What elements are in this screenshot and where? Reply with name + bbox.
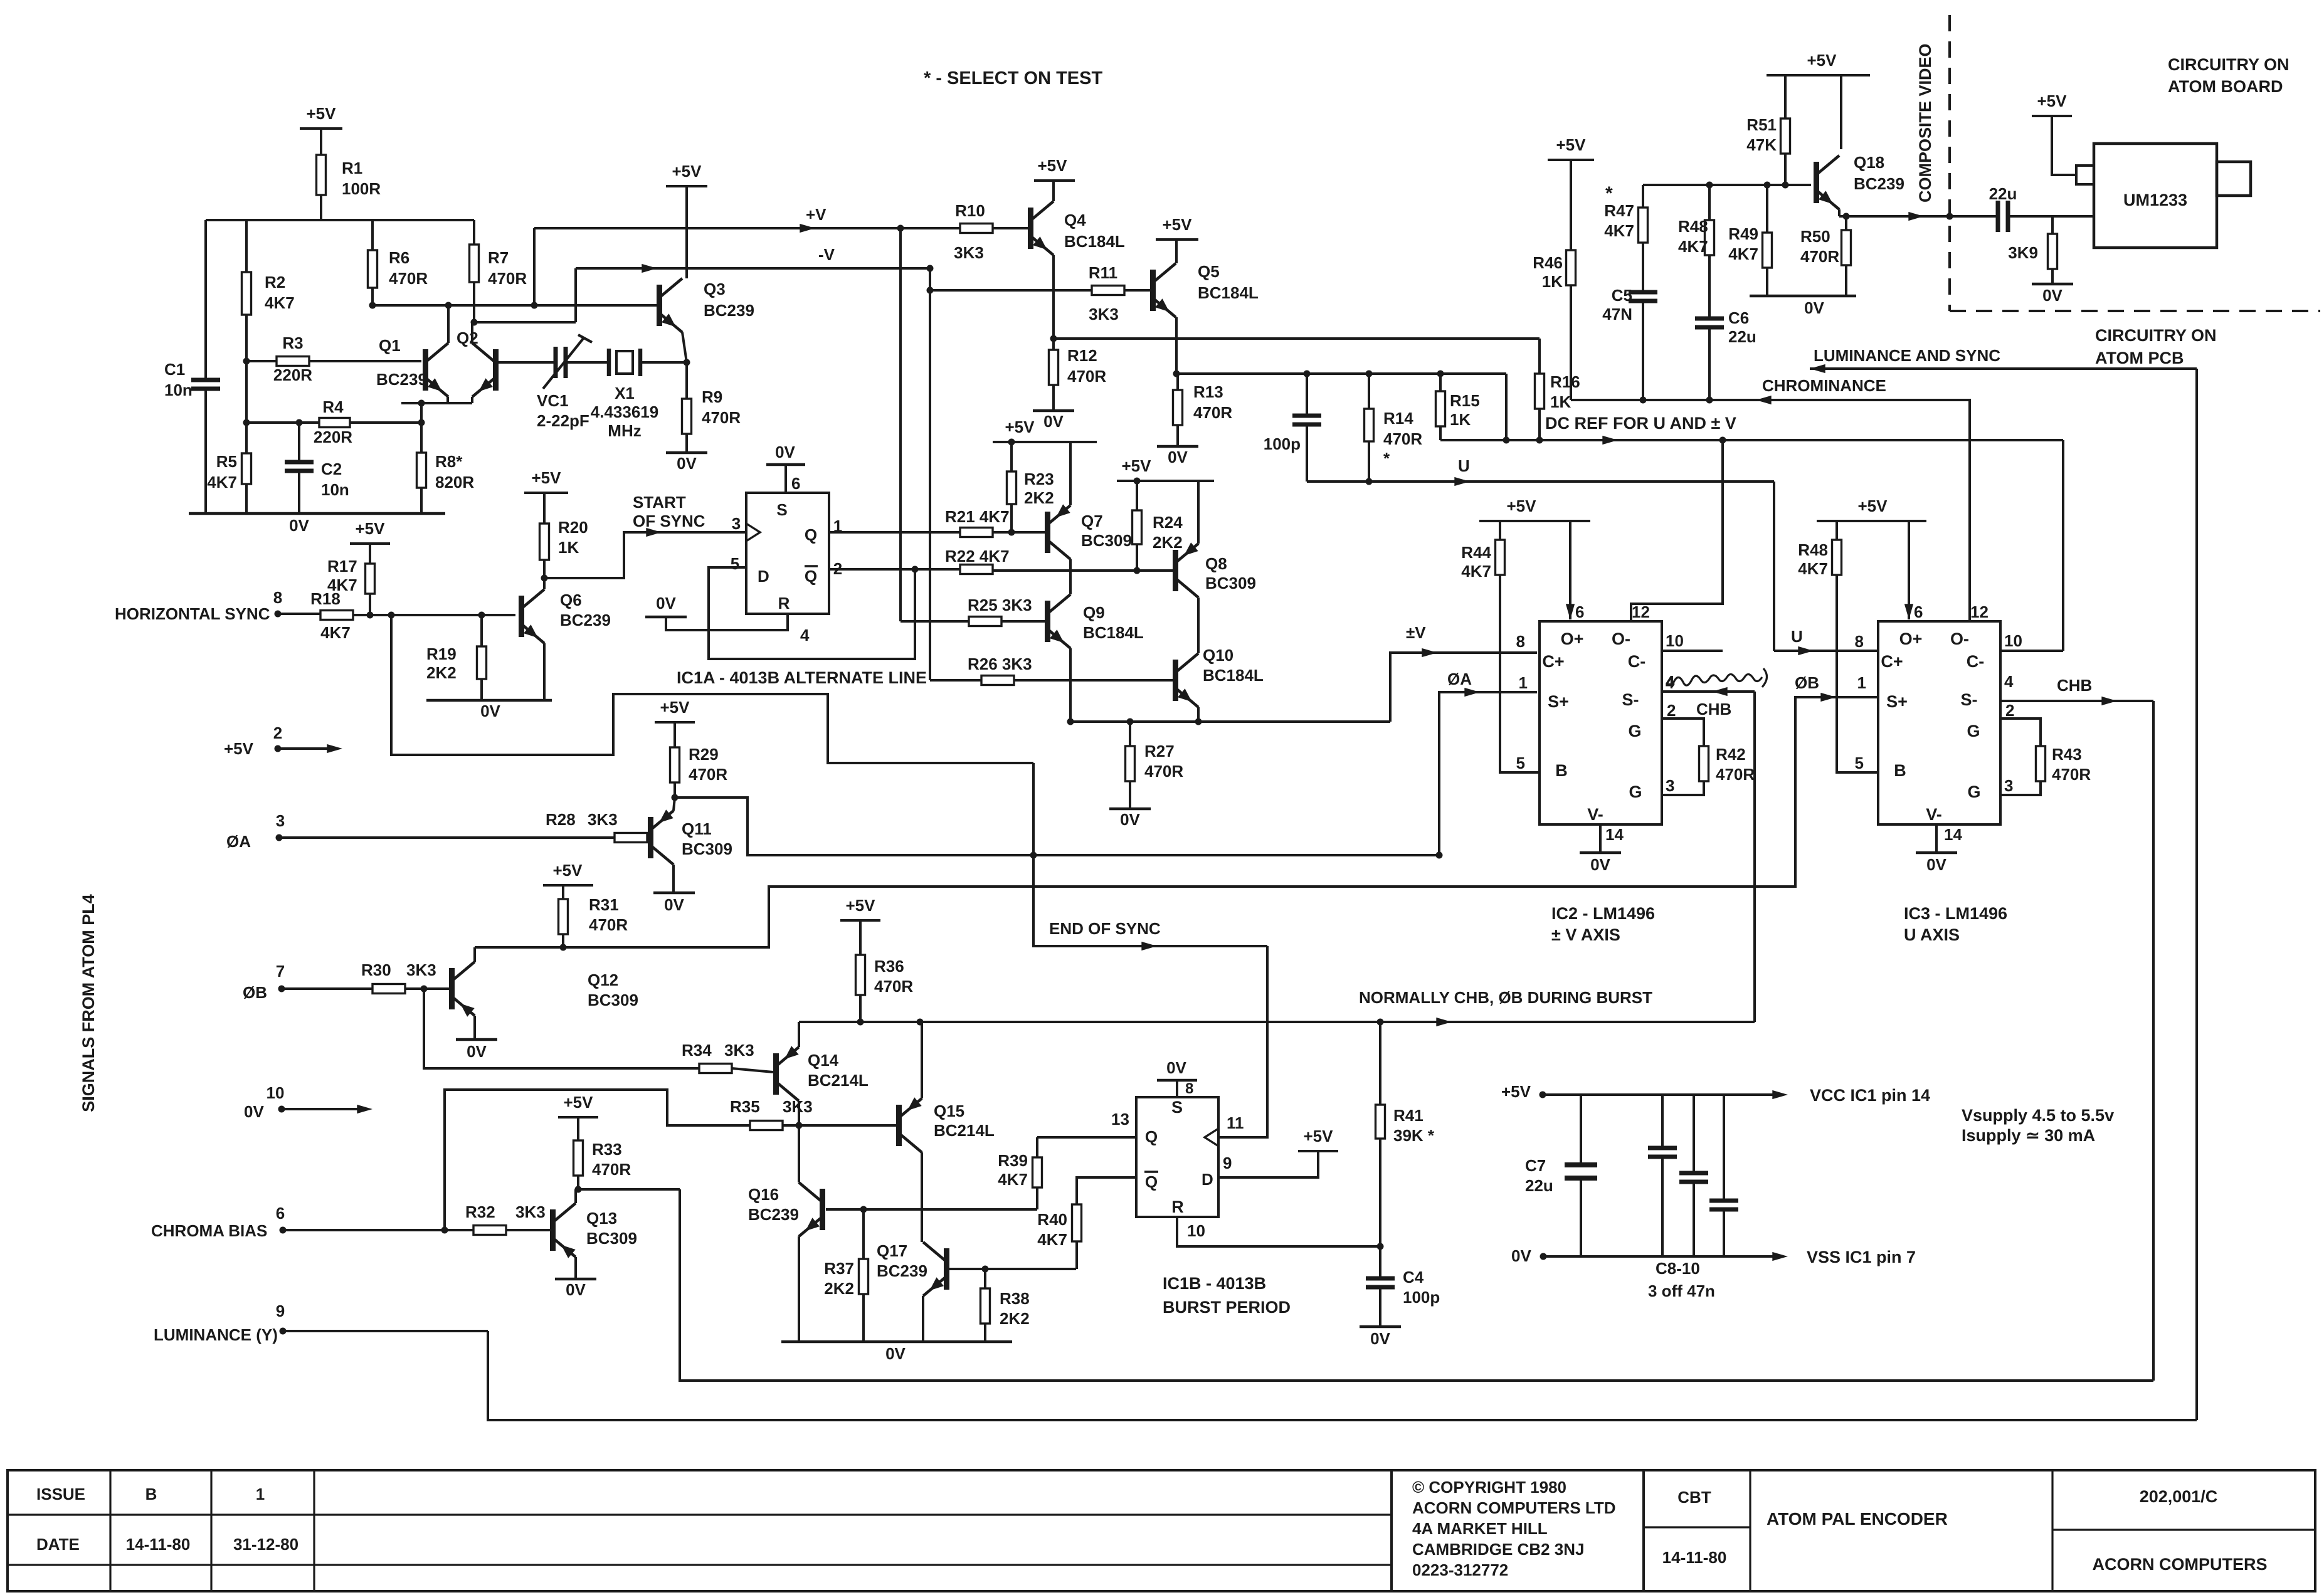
wire R25 to Q9 base [1001, 620, 1045, 623]
transistor Q8 [1173, 542, 1256, 597]
wire U line [1307, 456, 1774, 486]
titleblock copyright text [1412, 1478, 1616, 1579]
svg-text:0223-312772: 0223-312772 [1412, 1561, 1508, 1579]
resistor R2 [242, 272, 295, 315]
svg-text:470R: 470R [702, 408, 741, 427]
svg-text:R24: R24 [1153, 513, 1183, 532]
resistor R29 [670, 745, 728, 796]
wire L2 line [1176, 371, 1506, 377]
svg-text:R48: R48 [1798, 540, 1828, 559]
svg-text:0V: 0V [289, 516, 309, 535]
svg-text:4K7: 4K7 [1037, 1230, 1067, 1249]
svg-text:10n: 10n [164, 381, 193, 399]
svg-text:* - SELECT ON TEST: * - SELECT ON TEST [924, 68, 1102, 88]
wire Q10 emitter [1197, 707, 1200, 722]
wire Q17 base line [949, 1266, 1076, 1273]
svg-text:BC214L: BC214L [934, 1121, 995, 1140]
svg-text:R26 3K3: R26 3K3 [968, 655, 1032, 673]
wire R7 branch [473, 220, 475, 245]
svg-text:C8-10: C8-10 [1656, 1259, 1700, 1278]
svg-text:R38: R38 [1000, 1289, 1030, 1308]
wire R10 to Q4 base [993, 227, 1028, 229]
svg-text:BC239: BC239 [748, 1205, 799, 1224]
wire Q14 emitter [798, 1022, 800, 1047]
svg-text:OF SYNC: OF SYNC [633, 512, 705, 530]
svg-text:100R: 100R [342, 179, 381, 198]
svg-text:6: 6 [791, 474, 800, 493]
svg-text:R31: R31 [589, 895, 619, 914]
ground 0V R27 [1109, 809, 1151, 829]
svg-text:+5V: +5V [553, 861, 583, 880]
resistor R25 [968, 596, 1032, 626]
svg-text:R7: R7 [488, 248, 509, 267]
wire -V drop x1483 [927, 265, 934, 681]
wire IC1B pin 12 line [1077, 1177, 1136, 1204]
svg-text:3 off 47n: 3 off 47n [1648, 1282, 1715, 1300]
flip-flop IC1B pin labels [1144, 1098, 1244, 1240]
svg-text:Isupply ≃ 30 mA: Isupply ≃ 30 mA [1962, 1126, 2095, 1145]
svg-text:R23: R23 [1024, 470, 1054, 488]
wire -V riser [574, 268, 577, 322]
wire Q9 emitter [1069, 648, 1072, 722]
IC IC2 LM1496 box [1540, 621, 1662, 824]
ground 0V IC2 [1580, 853, 1621, 874]
svg-text:ACORN COMPUTERS LTD: ACORN COMPUTERS LTD [1412, 1498, 1616, 1517]
svg-text:100p: 100p [1264, 434, 1301, 453]
svg-text:R30: R30 [361, 961, 391, 979]
capacitor C6 [1695, 255, 1756, 400]
resistor R5 [207, 452, 251, 513]
svg-text:BC239: BC239 [560, 611, 611, 629]
power +5V R20 [524, 468, 568, 524]
svg-text:470R: 470R [1716, 765, 1755, 784]
transistor Q10 [1173, 646, 1264, 707]
resistor R18 [310, 589, 353, 642]
node Q1 collector line (+V feed) [369, 302, 657, 309]
ground 0V burst gate [781, 1342, 1012, 1363]
resistor R19 [426, 615, 487, 700]
wire Q13 collector line [575, 1186, 680, 1204]
svg-text:ATOM PCB: ATOM PCB [2095, 349, 2184, 367]
svg-text:COMPOSITE VIDEO: COMPOSITE VIDEO [1916, 43, 1935, 203]
wire chrominance to IC3 pin 12 [1968, 399, 1971, 621]
svg-text:+5V: +5V [1163, 215, 1193, 234]
svg-text:22u: 22u [1525, 1176, 1553, 1195]
svg-text:R13: R13 [1193, 382, 1223, 401]
svg-text:2K2: 2K2 [1024, 488, 1054, 507]
svg-text:S: S [776, 500, 787, 519]
wire phase B to R34 [424, 989, 699, 1068]
svg-text:14-11-80: 14-11-80 [126, 1535, 191, 1554]
svg-text:R41: R41 [1393, 1106, 1423, 1125]
svg-text:CHROMA BIAS: CHROMA BIAS [151, 1221, 267, 1240]
wire Q15 emitter [921, 1022, 923, 1098]
transistor Q12 [449, 962, 638, 1017]
svg-text:C7: C7 [1525, 1156, 1546, 1175]
wire R18 to Q6 base [353, 612, 515, 619]
svg-text:Q8: Q8 [1205, 554, 1227, 573]
power +5V R36 [840, 896, 880, 955]
svg-text:DC REF FOR U AND ± V: DC REF FOR U AND ± V [1545, 414, 1736, 433]
svg-text:UM1233: UM1233 [2123, 191, 2187, 209]
svg-text:2K2: 2K2 [426, 663, 457, 682]
svg-text:470R: 470R [1383, 429, 1422, 448]
wire L1 line [1054, 337, 1540, 340]
svg-text:BURST PERIOD: BURST PERIOD [1163, 1298, 1291, 1317]
wire R34 to Q14 base [732, 1068, 773, 1072]
svg-text:0V: 0V [677, 454, 697, 473]
wire burst line to IC2 pin 4 [1753, 692, 1756, 1022]
wire chroma bias to R35 [445, 1090, 750, 1230]
svg-text:470R: 470R [1067, 367, 1106, 386]
svg-text:0V: 0V [664, 895, 684, 914]
svg-text:0V: 0V [1511, 1246, 1531, 1265]
resistor R10 [954, 201, 993, 262]
svg-text:IC3 - LM1496: IC3 - LM1496 [1904, 904, 2007, 923]
svg-text:IC2 - LM1496: IC2 - LM1496 [1551, 904, 1655, 923]
svg-text:100p: 100p [1403, 1288, 1440, 1307]
svg-text:0V: 0V [1120, 810, 1140, 829]
resistor R34 [682, 1041, 754, 1073]
svg-text:Q2: Q2 [457, 329, 478, 347]
wire luminance return path [488, 1331, 2197, 1420]
resistor R51 [1746, 115, 1790, 185]
svg-text:R32: R32 [465, 1203, 495, 1221]
capacitor C10 [1709, 1095, 1738, 1256]
wire L2 drop [1503, 374, 1510, 444]
svg-text:0V: 0V [480, 702, 500, 720]
titleblock column lines [110, 1470, 314, 1591]
wire IC3 pin 2 [2000, 719, 2041, 746]
svg-text:4K7: 4K7 [207, 473, 237, 492]
svg-text:R5: R5 [216, 452, 237, 471]
svg-text:Q10: Q10 [1203, 646, 1233, 665]
svg-text:10: 10 [267, 1083, 285, 1102]
svg-text:3K9: 3K9 [2008, 243, 2038, 262]
transistor Q14 [773, 1046, 869, 1101]
svg-text:0V: 0V [1043, 412, 1064, 431]
svg-text:3K3: 3K3 [588, 810, 618, 829]
power +5V Q4 [1034, 156, 1075, 201]
power +5V Q5 [1156, 215, 1198, 263]
svg-text:4K7: 4K7 [320, 623, 351, 642]
resistor R30 [361, 961, 436, 994]
svg-text:-V: -V [818, 245, 835, 264]
svg-text:22u: 22u [1728, 327, 1756, 346]
svg-text:ISSUE: ISSUE [36, 1485, 85, 1503]
svg-text:1K: 1K [1550, 392, 1571, 411]
svg-text:1K: 1K [558, 538, 579, 557]
resistor R36 [856, 955, 914, 1022]
svg-text:3: 3 [2004, 776, 2013, 795]
svg-text:R27: R27 [1144, 742, 1175, 761]
wire IC1B pin 13 [1037, 1110, 1136, 1137]
flip-flop IC1A pin labels [731, 500, 842, 645]
IC2 pin numbers [1516, 603, 1684, 844]
svg-text:R3: R3 [282, 334, 303, 352]
svg-text:4K7: 4K7 [327, 576, 357, 594]
resistor R42 [1699, 745, 1755, 784]
svg-text:R16: R16 [1550, 372, 1580, 391]
svg-text:© COPYRIGHT 1980: © COPYRIGHT 1980 [1412, 1478, 1566, 1497]
capacitor C5 [1602, 243, 1657, 400]
wire Q10 feed [930, 679, 981, 682]
ground 0V Q13 [555, 1257, 596, 1299]
wire Q4 emitter to L1 [1050, 255, 1057, 342]
titleblock date row [36, 1535, 298, 1554]
svg-text:R35: R35 [730, 1097, 760, 1116]
wire Q13 collector arm [0, 0, 1, 1]
svg-text:Q1: Q1 [379, 336, 401, 355]
svg-text:BC239: BC239 [877, 1261, 927, 1280]
resistor R43 [2036, 745, 2091, 784]
svg-text:0V: 0V [2042, 286, 2063, 305]
svg-text:Q: Q [1145, 1172, 1158, 1191]
resistor R26 [968, 655, 1032, 685]
svg-text:CHROMINANCE: CHROMINANCE [1762, 376, 1886, 395]
svg-text:CHB: CHB [2057, 676, 2092, 695]
svg-text:R17: R17 [327, 557, 357, 576]
svg-text:3: 3 [1666, 776, 1674, 795]
svg-text:1: 1 [1857, 673, 1866, 692]
resistor R8 [417, 400, 475, 514]
wire IC2 V- pin 14 [1599, 824, 1602, 853]
label IC1A identity [677, 668, 927, 687]
wire 22u to UM1233 [2008, 215, 2094, 218]
wire Q16 base line [826, 1206, 1037, 1213]
svg-text:R34: R34 [682, 1041, 712, 1060]
label IC3 identity [1904, 904, 2007, 944]
svg-text:14: 14 [1944, 825, 1962, 844]
svg-text:R25 3K3: R25 3K3 [968, 596, 1032, 614]
capacitor C9 [1679, 1095, 1708, 1256]
resistor R12 [1049, 339, 1107, 411]
wire R6 branch [371, 220, 374, 250]
svg-text:R21 4K7: R21 4K7 [945, 507, 1010, 526]
svg-text:R: R [778, 594, 790, 613]
ground 0V 3K9 [2032, 284, 2073, 305]
svg-text:0V: 0V [467, 1042, 487, 1061]
resistor R6 [368, 248, 428, 305]
svg-text:0V: 0V [1804, 298, 1824, 317]
svg-text:R6: R6 [389, 248, 409, 267]
svg-text:+5V: +5V [1501, 1082, 1531, 1101]
resistor R40 [1037, 1204, 1081, 1269]
svg-text:R2: R2 [265, 273, 285, 292]
resistor R24 [1133, 510, 1183, 571]
svg-text:39K *: 39K * [1393, 1126, 1435, 1145]
svg-text:1: 1 [256, 1485, 265, 1503]
ground 0V Q6 [426, 643, 552, 720]
svg-text:R33: R33 [592, 1140, 622, 1159]
svg-text:LUMINANCE AND SYNC: LUMINANCE AND SYNC [1814, 346, 2000, 365]
svg-text:14: 14 [1605, 825, 1624, 844]
svg-text:ACORN COMPUTERS: ACORN COMPUTERS [2092, 1555, 2267, 1574]
titleblock drawing title [1767, 1509, 1948, 1529]
annotation handwritten burst note [1666, 668, 1767, 692]
svg-text:±V: ±V [1406, 623, 1426, 642]
svg-text:12: 12 [1970, 603, 1989, 621]
svg-text:S-: S- [1961, 690, 1978, 709]
wire +V riser [531, 228, 538, 309]
svg-text:0V: 0V [1370, 1329, 1390, 1348]
svg-text:BC309: BC309 [1081, 531, 1132, 550]
svg-text:R50: R50 [1800, 227, 1830, 246]
svg-text:5: 5 [1516, 754, 1525, 772]
transistor Q6 [519, 589, 611, 643]
resistor R16 [1535, 339, 1580, 444]
svg-text:BC309: BC309 [1205, 574, 1256, 592]
ground 0V R9 [666, 453, 707, 473]
svg-text:C-: C- [1628, 652, 1646, 671]
svg-text:R22 4K7: R22 4K7 [945, 547, 1010, 566]
modulator UM1233 [2076, 144, 2251, 248]
wire R11 to Q5 base [1124, 289, 1150, 292]
svg-text:Q16: Q16 [748, 1185, 779, 1204]
svg-text:4: 4 [1666, 675, 1674, 692]
svg-text:ØB: ØB [1795, 673, 1819, 692]
svg-text:3K3: 3K3 [783, 1097, 813, 1116]
wire IC3 pin 6 supply [1904, 521, 1913, 619]
svg-text:BC214L: BC214L [808, 1071, 869, 1090]
flip-flop IC1A clock triangle [746, 524, 760, 541]
svg-text:R36: R36 [874, 957, 904, 976]
svg-text:G: G [1629, 782, 1642, 801]
wire chrominance line [1571, 376, 1970, 404]
svg-text:R8*: R8* [435, 452, 463, 471]
svg-text:9: 9 [276, 1302, 285, 1320]
svg-text:8: 8 [1516, 632, 1525, 651]
wire Q12 collector to IC3 phase B [475, 673, 1878, 947]
svg-text:+5V: +5V [564, 1093, 594, 1112]
wire Q11 emitter to +5V [0, 0, 1, 1]
svg-text:2K2: 2K2 [1153, 533, 1183, 552]
svg-text:+5V: +5V [307, 104, 337, 123]
svg-text:± V AXIS: ± V AXIS [1551, 925, 1620, 944]
svg-text:B: B [1894, 761, 1906, 780]
svg-text:CBT: CBT [1677, 1488, 1711, 1507]
ground 0V R49 R50 [1750, 296, 1856, 317]
label IC1B identity [1163, 1274, 1291, 1317]
svg-text:Q17: Q17 [877, 1241, 907, 1260]
svg-text:HORIZONTAL SYNC: HORIZONTAL SYNC [115, 604, 270, 623]
svg-text:Vsupply 4.5 to 5.5v: Vsupply 4.5 to 5.5v [1962, 1106, 2114, 1125]
wire IC2 pin 6 supply [1566, 521, 1575, 619]
wire VC1 to X1 [566, 361, 609, 364]
resistor 3K9 [2008, 216, 2057, 284]
resistor R44 [1461, 521, 1504, 581]
svg-text:R49: R49 [1728, 224, 1758, 243]
capacitor C8 [1648, 1095, 1677, 1256]
svg-text:9: 9 [1223, 1154, 1232, 1172]
svg-text:+5V: +5V [1122, 456, 1152, 475]
svg-text:G: G [1628, 722, 1641, 740]
flip-flop IC1B clock triangle [1205, 1129, 1218, 1146]
svg-text:10: 10 [1187, 1221, 1205, 1240]
svg-text:C5: C5 [1612, 286, 1632, 305]
resistor R50 [1800, 213, 1851, 297]
svg-text:+5V: +5V [224, 739, 254, 758]
svg-text:U AXIS: U AXIS [1904, 925, 1960, 944]
wire Q15 collector to Q17 collector [921, 1152, 923, 1242]
transistor Q4 [1028, 201, 1125, 255]
svg-text:G: G [1967, 722, 1980, 740]
resistor R23 [1007, 470, 1054, 536]
svg-text:4K7: 4K7 [1798, 559, 1828, 578]
svg-text:4.433619: 4.433619 [591, 403, 658, 421]
svg-text:Q5: Q5 [1198, 262, 1220, 281]
svg-text:CHB: CHB [1696, 700, 1731, 719]
svg-text:U: U [1458, 456, 1470, 475]
crystal X1 [591, 349, 658, 440]
svg-text:3K3: 3K3 [406, 961, 436, 979]
resistor R4 [246, 397, 421, 446]
wire Q7-Q9 collectors [1069, 559, 1072, 594]
svg-text:DATE: DATE [36, 1535, 80, 1554]
svg-text:10: 10 [1666, 631, 1684, 650]
svg-text:14-11-80: 14-11-80 [1662, 1548, 1727, 1567]
capacitor 22u coupling [1989, 184, 2017, 232]
svg-text:IC1B - 4013B: IC1B - 4013B [1163, 1274, 1266, 1293]
wire end of sync [1033, 763, 1267, 950]
resistor R13 [1173, 374, 1233, 446]
wire Q2 base to VC1 [498, 361, 556, 364]
capacitor C4 [1366, 1246, 1440, 1327]
svg-text:470R: 470R [389, 269, 428, 288]
label horizontal sync [115, 588, 282, 623]
node chroma bias input [151, 1204, 473, 1240]
power +5V R29 [655, 698, 695, 747]
ground 0V C4 [1360, 1327, 1401, 1348]
power +5V Q3 [666, 162, 707, 278]
svg-text:R9: R9 [702, 387, 722, 406]
svg-text:R40: R40 [1037, 1210, 1067, 1229]
resistor R3 [250, 334, 421, 384]
wire Q12 collector [473, 947, 476, 962]
ground 0V IC1A reset [645, 594, 788, 630]
svg-text:U: U [1791, 627, 1803, 646]
wire R30 to Q12 base [405, 986, 449, 992]
svg-text:BC184L: BC184L [1203, 666, 1264, 685]
resistor R17 [327, 557, 375, 615]
svg-text:3K3: 3K3 [1089, 305, 1119, 324]
wire R32 to Q13 base [506, 1229, 550, 1231]
resistor R21 [945, 507, 1010, 537]
svg-text:Q11: Q11 [682, 819, 712, 838]
transistor Q5 [1150, 262, 1259, 317]
svg-text:47K: 47K [1746, 135, 1777, 154]
svg-text:0V: 0V [1168, 448, 1188, 466]
wire +V drop x1436 [897, 225, 904, 622]
svg-text:0V: 0V [244, 1102, 264, 1121]
svg-text:Q7: Q7 [1081, 512, 1103, 530]
svg-text:6: 6 [1914, 603, 1923, 621]
svg-text:O+: O+ [1899, 629, 1923, 648]
svg-text:4K7: 4K7 [1461, 562, 1491, 581]
svg-text:1K: 1K [1542, 272, 1563, 291]
svg-text:R48: R48 [1678, 217, 1708, 236]
IC IC3 LM1496 box [1878, 621, 2000, 824]
svg-text:Q3: Q3 [704, 280, 726, 298]
svg-text:BC239: BC239 [1854, 174, 1904, 193]
svg-text:2: 2 [273, 724, 282, 742]
svg-text:8: 8 [273, 588, 282, 607]
wire U to IC3 pin 8 [1774, 482, 1878, 655]
svg-text:+5V: +5V [660, 698, 690, 717]
svg-text:4: 4 [800, 626, 810, 645]
IC3 handwritten pin names [1881, 629, 1984, 824]
svg-text:22u: 22u [1989, 184, 2017, 203]
